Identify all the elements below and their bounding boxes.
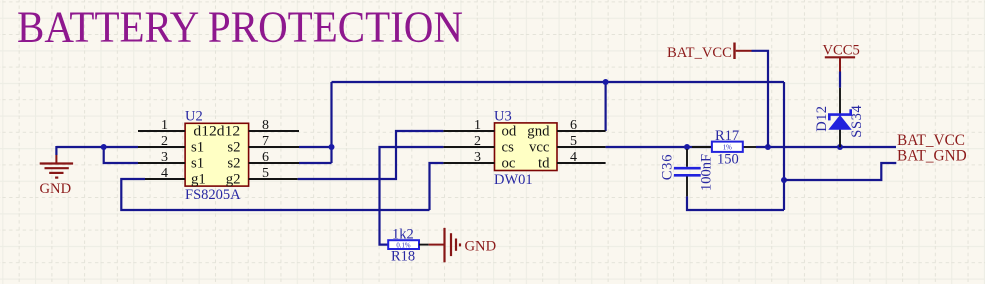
svg-text:6: 6	[262, 150, 269, 165]
capacitor C36 100nF	[660, 149, 715, 196]
svg-text:DW01: DW01	[494, 172, 533, 188]
svg-text:U3: U3	[494, 109, 512, 125]
node junction BAT_VCC riser	[765, 144, 771, 150]
wire U2 pin4 to bottom bus	[121, 179, 429, 210]
U3 pin 3	[443, 150, 515, 172]
svg-text:oc: oc	[502, 155, 516, 171]
IC U2 FS8205A dual MOSFET	[185, 109, 249, 204]
svg-text:R18: R18	[391, 249, 415, 265]
svg-text:D12: D12	[814, 106, 830, 132]
U2 pin 2	[138, 134, 204, 156]
power VCC5	[823, 43, 860, 72]
U2 pin 3	[138, 150, 204, 172]
wire BAT_VCC port to VCC net	[752, 51, 769, 147]
U3 pin 5	[529, 134, 606, 156]
svg-text:150: 150	[717, 152, 739, 168]
svg-text:8: 8	[262, 118, 269, 133]
svg-text:GND: GND	[465, 239, 497, 255]
svg-text:7: 7	[262, 134, 269, 149]
wire top bus	[332, 81, 785, 83]
svg-text:GND: GND	[40, 181, 72, 197]
svg-text:1%: 1%	[723, 144, 732, 151]
svg-text:s2: s2	[227, 155, 240, 171]
svg-text:BAT_GND: BAT_GND	[897, 148, 967, 165]
wire VCC net R17 to BAT_VCC label	[756, 146, 896, 148]
diode D12 SS34	[814, 88, 865, 147]
svg-text:VCC5: VCC5	[823, 43, 860, 59]
U3 pin 6	[527, 118, 605, 140]
wire U3 pin6 riser to top bus	[604, 82, 606, 131]
node junction top bus / U3 pin6	[603, 79, 609, 85]
svg-text:U2: U2	[185, 109, 203, 125]
U3 pin 2	[443, 134, 514, 156]
wire U3 pin2 down to R18	[380, 147, 444, 245]
svg-text:BAT_VCC: BAT_VCC	[897, 132, 965, 149]
wire R18 to GND	[419, 244, 429, 246]
svg-text:s1: s1	[191, 155, 204, 171]
U2 pin 1	[138, 118, 240, 140]
node junction C36 top	[684, 144, 690, 150]
svg-text:vcc: vcc	[529, 139, 550, 155]
svg-text:C36: C36	[660, 154, 676, 181]
svg-text:3: 3	[474, 150, 481, 165]
svg-text:s2: s2	[227, 139, 240, 155]
svg-text:R17: R17	[715, 128, 739, 144]
wire VCC5 to diode	[839, 72, 841, 88]
U2 pin 4	[145, 166, 206, 188]
svg-text:3: 3	[161, 150, 168, 165]
svg-text:g1: g1	[191, 171, 206, 187]
wire U2 pin5 to U3 pin1	[298, 131, 444, 179]
U2 pin 8	[249, 118, 299, 133]
svg-text:100nF: 100nF	[698, 154, 714, 191]
svg-text:cs: cs	[502, 139, 515, 155]
svg-text:4: 4	[161, 166, 168, 181]
svg-text:d12d12: d12d12	[193, 123, 240, 139]
title BATTERY PROTECTION	[17, 3, 463, 52]
node junction diode D12	[837, 144, 843, 150]
svg-text:g2: g2	[226, 171, 241, 187]
IC U3 DW01 protection IC	[494, 109, 557, 189]
node junction BAT_GND branch	[781, 177, 787, 183]
svg-text:FS8205A: FS8205A	[185, 187, 241, 203]
ground GND (left power ground symbol)	[40, 146, 74, 197]
svg-text:1: 1	[161, 118, 168, 133]
svg-text:SS34: SS34	[849, 105, 865, 138]
svg-text:2: 2	[474, 134, 481, 149]
node net label BAT_GND (right)	[897, 148, 967, 165]
svg-text:1k2: 1k2	[392, 227, 414, 243]
wire U2 pin7/pin6 riser	[299, 82, 332, 163]
node net label BAT_VCC (right)	[897, 132, 965, 149]
node junction U2 pin7	[329, 144, 335, 150]
svg-text:td: td	[538, 155, 550, 171]
svg-text:6: 6	[570, 118, 577, 133]
port BAT_VCC (top)	[667, 43, 752, 62]
ground GND (right, rotated symbol)	[429, 228, 496, 262]
wire GND net drop to U2 pin3	[104, 147, 138, 163]
svg-text:gnd: gnd	[527, 123, 550, 139]
U3 pin 1	[443, 118, 516, 140]
svg-text:2: 2	[161, 134, 168, 149]
wire bottom bus riser to U3 pin3	[430, 163, 444, 210]
wire C36 bottom to right bus	[687, 196, 784, 210]
svg-text:od: od	[502, 123, 517, 139]
svg-text:4: 4	[570, 150, 577, 165]
resistor R17 150	[692, 128, 756, 168]
U3 pin 4	[538, 150, 606, 172]
node junction GND net	[101, 144, 107, 150]
U2 pin 5	[226, 166, 298, 188]
wire VCC net U3 pin5 to R17	[606, 146, 712, 148]
svg-text:s1: s1	[191, 139, 204, 155]
svg-text:BATTERY PROTECTION: BATTERY PROTECTION	[17, 3, 463, 52]
svg-text:BAT_VCC: BAT_VCC	[667, 45, 732, 61]
wire right bus drop	[783, 82, 785, 210]
resistor R18 1k2	[388, 227, 419, 265]
svg-text:5: 5	[570, 134, 577, 149]
svg-text:1: 1	[474, 118, 481, 133]
wire GND net horizontal to U2 pin2	[56, 146, 138, 148]
wire BAT_GND branch	[784, 163, 896, 180]
U2 pin 6	[227, 150, 299, 172]
svg-text:5: 5	[262, 166, 269, 181]
U2 pin 7	[227, 134, 299, 156]
